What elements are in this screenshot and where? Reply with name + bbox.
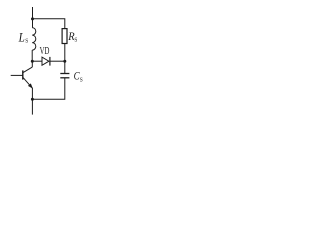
node top junction dot <box>31 17 34 20</box>
wire inductor to diode junction <box>31 50 33 61</box>
inductor LS coil arcs <box>32 28 36 51</box>
svg-text:S: S <box>25 37 28 44</box>
capacitor CS bottom plate <box>60 77 69 79</box>
diode VD cathode bar <box>49 57 51 66</box>
node diode-anode / collector junction dot <box>31 60 34 63</box>
transistor emitter arrowhead <box>28 83 33 88</box>
wire bottom terminal stub <box>31 99 33 114</box>
transistor base lead wire <box>11 74 23 76</box>
wire diode cathode side <box>50 60 65 62</box>
wire capacitor to bottom corner and bottom horizontal <box>32 78 64 100</box>
wire emitter down to bottom junction <box>31 88 33 99</box>
svg-text:VD: VD <box>40 46 50 57</box>
transistor base bar <box>22 70 24 79</box>
wire top terminal stub <box>32 7 34 19</box>
node emitter-bottom junction dot <box>31 98 34 101</box>
svg-text:S: S <box>80 76 83 83</box>
capacitor CS top plate <box>60 73 69 75</box>
wire diode anode side <box>32 60 42 62</box>
diode VD triangle <box>42 57 49 65</box>
wire junction down to transistor collector <box>31 61 33 67</box>
transistor emitter diagonal <box>23 78 32 89</box>
node diode-cathode junction dot <box>63 60 66 63</box>
resistor RS body <box>62 29 67 44</box>
wire left rail: top junction down to inductor <box>32 19 34 28</box>
svg-text:L: L <box>18 31 25 45</box>
transistor collector diagonal <box>23 67 32 73</box>
wire top horizontal to right rail corner <box>33 19 65 29</box>
wire right rail: resistor to capacitor <box>64 44 66 74</box>
svg-text:S: S <box>74 37 77 44</box>
